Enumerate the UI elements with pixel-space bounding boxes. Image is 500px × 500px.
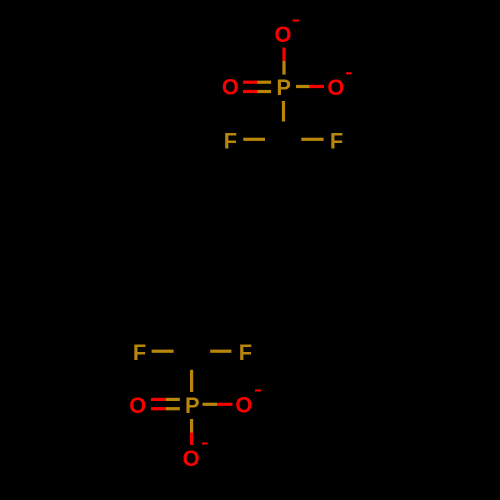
charge minus on O6 — [202, 443, 208, 445]
wire bond P1-C1 (P half, gold; carbon half invisible) — [282, 101, 285, 122]
svg-text:F: F — [330, 128, 343, 153]
wire bond P1-O3 (P half, gold) — [296, 85, 310, 88]
wire double bond O2=P1 lower line (O half, red) — [243, 90, 258, 93]
wire bond C1-F2 (F half, gold) — [301, 138, 323, 141]
wire double bond O4=P2 upper line (O half, red) — [151, 398, 166, 401]
wire bond P2-O5 (O half, red) — [217, 403, 233, 406]
wire bond C2-P2 (P half, gold; carbon half invisible) — [190, 370, 193, 392]
wire double bond O2=P1 upper line (O half, red) — [243, 81, 258, 84]
wire bond P2-O6 (P half, gold) — [190, 419, 193, 433]
wire bond O1-P1 (P half, gold) — [282, 61, 285, 75]
wire bond F1-C1 (F half, gold) — [243, 138, 265, 141]
svg-text:O: O — [222, 75, 239, 100]
wire double bond O4=P2 lower line (P half, gold) — [166, 407, 180, 410]
wire double bond O4=P2 lower line (O half, red) — [151, 407, 166, 410]
wire bond P1-O3 (O half, red) — [310, 85, 325, 88]
svg-text:O: O — [275, 22, 292, 47]
svg-text:O: O — [235, 393, 252, 418]
svg-text:O: O — [183, 446, 200, 471]
svg-text:O: O — [327, 75, 344, 100]
charge minus on O1 — [293, 20, 299, 22]
wire double bond O2=P1 lower line (P half, gold) — [258, 90, 272, 93]
svg-text:P: P — [276, 75, 291, 100]
svg-text:P: P — [185, 393, 200, 418]
charge minus on O5 — [255, 390, 261, 392]
svg-text:F: F — [133, 340, 146, 365]
wire double bond O2=P1 upper line (P half, gold) — [258, 81, 272, 84]
wire bond P2-O6 (O half, red) — [190, 433, 193, 445]
wire double bond O4=P2 upper line (P half, gold) — [166, 398, 180, 401]
svg-text:F: F — [224, 128, 237, 153]
svg-text:O: O — [129, 393, 146, 418]
svg-text:F: F — [239, 340, 252, 365]
wire bond F3-C2 (F half, gold) — [152, 350, 174, 353]
wire bond O1-P1 (O half, red) — [282, 48, 285, 61]
wire bond P2-O5 (P half, gold) — [203, 403, 218, 406]
wire bond C2-F4 (F half, gold) — [210, 350, 231, 353]
charge minus on O3 — [346, 72, 352, 74]
